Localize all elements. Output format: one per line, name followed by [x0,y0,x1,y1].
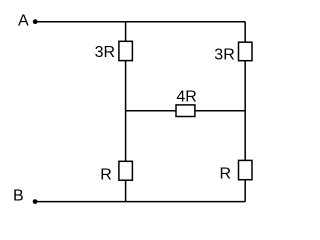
svg-text:3R: 3R [214,47,234,64]
resistor R right body [239,160,253,179]
resistor R left body [119,161,132,180]
svg-text:A: A [18,13,29,30]
svg-text:B: B [13,188,24,205]
svg-text:R: R [220,165,232,182]
svg-text:R: R [100,166,112,183]
wire right vertical branch [244,22,246,202]
resistor 3R right body [239,42,253,61]
node A terminal dot [33,19,38,24]
wire middle vertical branch [125,22,127,202]
wire bottom B to bottom-right corner [35,201,245,203]
wire middle horizontal branch [126,110,246,112]
svg-text:3R: 3R [95,44,115,61]
svg-text:4R: 4R [176,89,196,106]
node B terminal dot [33,199,38,204]
resistor 4R body [176,105,195,117]
wire top A to top-right corner [35,21,245,23]
resistor 3R left body [119,41,132,60]
